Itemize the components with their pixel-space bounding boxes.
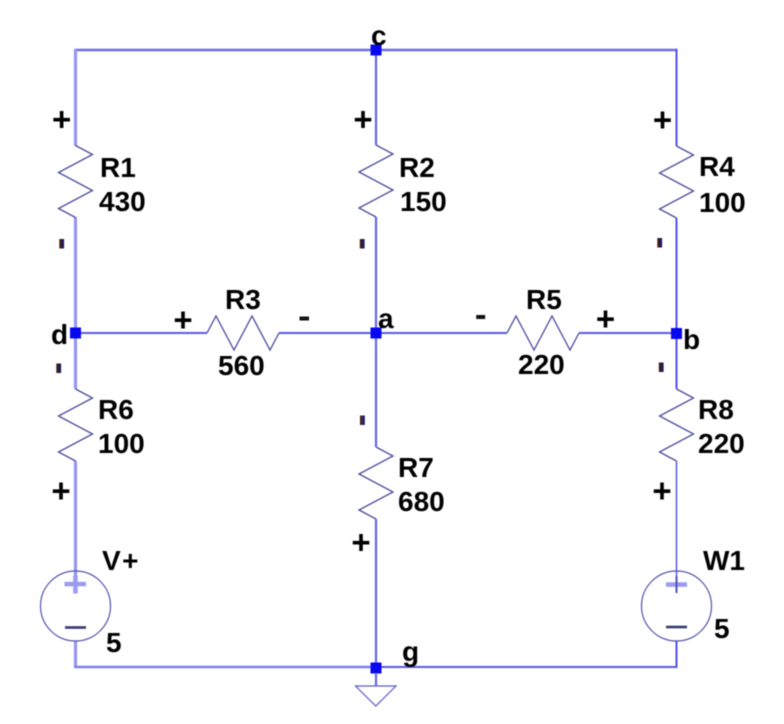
resistor R2 (359, 145, 393, 217)
ground (375, 673, 377, 686)
svg-text:W1: W1 (703, 545, 745, 576)
svg-text:c: c (371, 20, 387, 51)
svg-text:R1: R1 (100, 152, 136, 183)
svg-text:220: 220 (518, 349, 565, 380)
wire middle vertical R7 to node g (375, 519, 377, 668)
svg-text:+: + (652, 472, 671, 509)
resistor R7 (359, 447, 393, 519)
wire top horizontal c-rail (76, 49, 677, 51)
svg-text:b: b (683, 324, 700, 355)
svg-text:+: + (52, 101, 71, 138)
polarity minus R4 (rotated tick) (657, 238, 662, 248)
wire bottom rail right half (376, 666, 677, 668)
svg-text:+: + (51, 472, 70, 509)
polarity minus R3 (300, 317, 310, 321)
polarity minus R7 (rotated tick) (360, 416, 365, 426)
svg-text:g: g (402, 636, 419, 667)
svg-text:+: + (173, 301, 192, 338)
svg-text:R4: R4 (699, 151, 735, 182)
svg-text:5: 5 (106, 627, 122, 658)
svg-text:R5: R5 (526, 284, 562, 315)
svg-text:+: + (596, 300, 615, 337)
polarity minus R2 (rotated tick) (360, 239, 365, 249)
resistor R1 (59, 146, 93, 218)
wire middle horizontal d to R3 (76, 332, 208, 334)
svg-text:150: 150 (400, 186, 447, 217)
wire middle vertical c to R2 (375, 50, 377, 145)
resistor R5 (507, 316, 579, 350)
svg-text:100: 100 (699, 187, 746, 218)
node d (70, 328, 81, 339)
svg-text:430: 430 (99, 186, 146, 217)
svg-text:+: + (353, 101, 372, 138)
wire middle horizontal R5 to node b (579, 332, 677, 334)
resistor R6 (59, 389, 93, 461)
wire right vertical top to R4 (676, 49, 678, 146)
node c (371, 45, 382, 56)
voltage source V+ (41, 571, 111, 641)
wire middle horizontal R3 to node a (279, 332, 376, 334)
node g (371, 663, 382, 674)
svg-text:+: + (653, 101, 672, 138)
polarity minus R1 (rotated tick) (59, 239, 64, 249)
wire right vertical W1 bottom to bottom rail (676, 641, 678, 668)
polarity minus R8 (rotated tick) (659, 363, 664, 373)
svg-text:d: d (51, 319, 68, 350)
wire left vertical R6 to V+ source (74, 461, 77, 593)
svg-text:R3: R3 (225, 284, 261, 315)
wire middle vertical R2 to node a to R7 (375, 217, 377, 447)
svg-text:560: 560 (218, 350, 265, 381)
svg-text:5: 5 (714, 613, 730, 644)
wire left vertical R1 to node d (74, 217, 77, 389)
svg-text:R7: R7 (398, 452, 434, 483)
wire middle horizontal node a to R5 (376, 332, 507, 334)
wire left vertical V+ bottom to bottom rail (74, 641, 77, 667)
svg-text:R2: R2 (399, 152, 435, 183)
resistor R4 (660, 146, 694, 218)
wire bottom rail left half (74, 666, 376, 669)
node b (671, 328, 682, 339)
polarity minus R5 (476, 315, 485, 319)
svg-text:+: + (351, 524, 370, 561)
node a (371, 328, 382, 339)
wire right vertical R8 into W1 source (676, 461, 678, 592)
svg-text:R6: R6 (98, 394, 134, 425)
resistor R3 (207, 316, 279, 350)
svg-text:680: 680 (398, 486, 445, 517)
polarity minus R6 (rotated tick) (56, 364, 61, 374)
svg-text:a: a (378, 303, 394, 334)
svg-text:R8: R8 (698, 394, 734, 425)
svg-text:V+: V+ (102, 545, 140, 576)
svg-text:220: 220 (698, 428, 745, 459)
wire left vertical upper (c corner to R1) (74, 49, 77, 146)
voltage source W1 (642, 571, 712, 641)
resistor R8 (660, 389, 694, 461)
wire right vertical R4 to node b to R8 (676, 218, 678, 389)
svg-text:100: 100 (98, 428, 145, 459)
